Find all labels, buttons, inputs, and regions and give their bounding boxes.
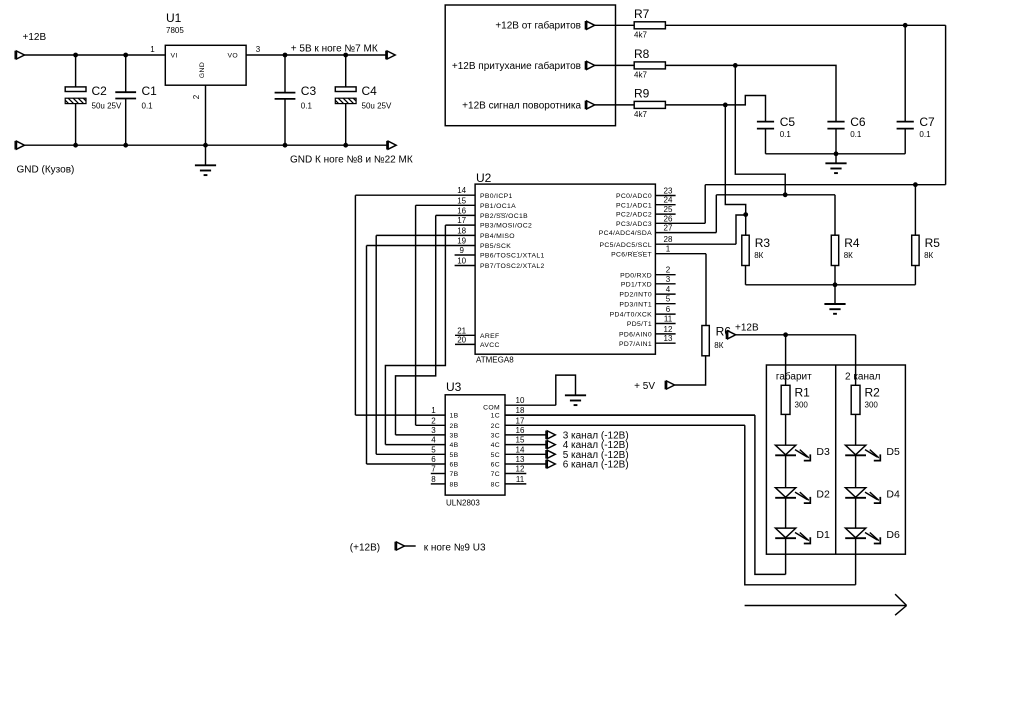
wire R3 bottom: [745, 266, 747, 285]
svg-text:14: 14: [457, 186, 466, 195]
wire C4 bottom lead: [345, 104, 347, 146]
wire +5V rail: [246, 54, 386, 56]
svg-text:8К: 8К: [924, 251, 933, 260]
wire PB0 to 1B: [354, 195, 356, 415]
wire C2 top lead: [75, 55, 77, 87]
pin 2 wire of U1: [192, 85, 206, 145]
junction: [343, 143, 348, 148]
svg-text:D5: D5: [886, 446, 900, 458]
svg-text:габарит: габарит: [776, 371, 812, 383]
svg-text:17: 17: [516, 416, 525, 425]
port +5V output arrow: [386, 51, 395, 60]
svg-text:ULN2803: ULN2803: [446, 499, 480, 508]
resistor R2: [851, 385, 860, 414]
port 6 kanal output: [546, 460, 555, 469]
wire top rail to U1 VI: [25, 54, 166, 56]
junction net2/R8: [783, 192, 788, 197]
svg-text:R8: R8: [634, 47, 650, 61]
pin 12 PD6/AIN0 of U2: [619, 325, 676, 339]
svg-text:U2: U2: [476, 171, 492, 185]
svg-text:12: 12: [664, 325, 673, 334]
wire PB3 to 4B: [385, 225, 445, 445]
pin 14 PB0/ICP1 of U2: [355, 186, 512, 200]
svg-text:GND (Кузов): GND (Кузов): [17, 165, 75, 176]
port GND output arrow: [387, 141, 396, 150]
pin 27 PC4/ADC4/SDA of U2: [599, 224, 717, 238]
svg-text:2: 2: [431, 416, 436, 425]
svg-text:PD0/RXD: PD0/RXD: [620, 272, 652, 279]
pin 12 7C of U3: [491, 465, 527, 479]
svg-text:D6: D6: [886, 529, 900, 541]
junction R7/C7: [903, 23, 908, 28]
svg-text:R5: R5: [925, 236, 941, 250]
svg-text:26: 26: [664, 214, 673, 223]
svg-text:2B: 2B: [450, 423, 459, 430]
wire C2 bottom lead: [75, 104, 77, 146]
pin 10 COM of U3: [505, 396, 556, 405]
pin 21 AREF of U2: [455, 326, 500, 340]
svg-text:GND К ноге №8 и №22 МК: GND К ноге №8 и №22 МК: [290, 155, 413, 166]
svg-text:0.1: 0.1: [919, 130, 931, 139]
svg-text:6B: 6B: [450, 462, 459, 469]
svg-text:PC5/ADC5/SCL: PC5/ADC5/SCL: [599, 242, 652, 249]
junction: [203, 143, 208, 148]
svg-text:4: 4: [431, 436, 436, 445]
pin 6 PD4/T0/XCK of U2: [610, 305, 676, 319]
wire COM to ground: [556, 375, 576, 405]
svg-text:2: 2: [666, 266, 671, 275]
svg-text:COM: COM: [483, 405, 500, 412]
port povorotnik input: [585, 101, 594, 110]
svg-text:9: 9: [459, 246, 464, 255]
svg-text:2C: 2C: [491, 423, 500, 430]
svg-text:0.1: 0.1: [780, 130, 792, 139]
wire C7 top lead: [904, 25, 906, 121]
svg-text:PD2/INT0: PD2/INT0: [619, 292, 652, 299]
wire to R7: [595, 24, 635, 26]
svg-text:GND: GND: [199, 62, 206, 78]
svg-text:300: 300: [795, 401, 809, 410]
port +5V: [665, 381, 674, 390]
pin 16 3C of U3: [491, 426, 546, 440]
svg-text:AVCC: AVCC: [480, 342, 500, 349]
svg-text:2 канал: 2 канал: [845, 372, 881, 383]
pin 23 PC0/ADC0 of U2: [616, 187, 676, 201]
svg-text:R9: R9: [634, 86, 650, 100]
junction R8 branch: [733, 63, 738, 68]
wire D3 to D2: [785, 455, 787, 487]
wire C5 bottom lead: [765, 129, 767, 154]
svg-text:7: 7: [431, 465, 436, 474]
junction: [73, 143, 78, 148]
svg-text:PD5/T1: PD5/T1: [627, 321, 652, 328]
ground under U1 pin 2: [205, 145, 207, 165]
wire R5 bottom: [914, 266, 916, 285]
pin 11 8C of U3: [491, 475, 527, 489]
wire D4 to D6: [855, 498, 857, 528]
junction R9 branch: [723, 103, 728, 108]
LED D5: [845, 445, 880, 460]
svg-text:5: 5: [431, 445, 436, 454]
wire net1 down: [945, 25, 947, 184]
svg-text:3: 3: [256, 45, 261, 54]
wire D1 down: [785, 538, 787, 574]
wire PB5 to 6B: [366, 246, 368, 465]
resistor R6: [702, 326, 709, 356]
pin 17 2C of U3: [491, 416, 745, 430]
svg-text:19: 19: [457, 237, 466, 246]
svg-text:6: 6: [431, 455, 436, 464]
port +12V LED supply: [726, 331, 735, 340]
wire 2C out: [505, 424, 745, 426]
svg-text:16: 16: [516, 426, 525, 435]
pin 18 1C of U3: [491, 406, 755, 420]
svg-text:50u 25V: 50u 25V: [92, 102, 122, 111]
svg-text:C4: C4: [362, 84, 378, 98]
svg-text:15: 15: [516, 436, 525, 445]
svg-text:6: 6: [666, 305, 671, 314]
svg-text:PD1/TXD: PD1/TXD: [621, 281, 652, 288]
svg-text:4k7: 4k7: [634, 110, 647, 119]
wire C3 top lead: [284, 55, 286, 93]
svg-text:3: 3: [666, 275, 671, 284]
wire net2 to PC4: [715, 195, 717, 233]
resistor R7: [634, 22, 665, 29]
ground symbol COM: [565, 395, 586, 405]
svg-text:PC0/ADC0: PC0/ADC0: [616, 193, 652, 200]
wire C6 bottom lead: [835, 129, 837, 154]
svg-text:PB6/TOSC1/XTAL1: PB6/TOSC1/XTAL1: [480, 253, 545, 260]
capacitor C6: [827, 122, 844, 129]
junction: [123, 53, 128, 58]
pin 19 PB5/SCK of U2: [367, 237, 512, 251]
svg-text:1: 1: [431, 406, 436, 415]
svg-text:3: 3: [431, 426, 436, 435]
svg-text:VO: VO: [227, 53, 238, 60]
svg-text:0.1: 0.1: [301, 102, 313, 111]
pin 11 PD5/T1 of U2: [627, 315, 676, 329]
wire R7 to net1: [665, 24, 945, 26]
pin 4 4B of U3: [385, 436, 458, 450]
wire net1 horizontal: [705, 184, 945, 186]
svg-text:PD6/AIN0: PD6/AIN0: [619, 332, 652, 339]
ground symbol power rail: [195, 165, 216, 175]
wire to R9: [595, 104, 635, 106]
svg-text:VI: VI: [171, 53, 178, 60]
wire note stub: [405, 545, 416, 547]
wire net1 to PC3: [704, 185, 706, 224]
svg-text:R7: R7: [634, 7, 650, 21]
direction arrow: [745, 594, 907, 615]
svg-text:+ 5V: + 5V: [634, 381, 655, 392]
capacitor C3: [275, 93, 296, 99]
junction: [283, 53, 288, 58]
LED D6: [845, 528, 880, 543]
LED D4: [845, 488, 880, 503]
resistor R8: [634, 62, 665, 69]
capacitor C4: [335, 87, 356, 104]
svg-text:R2: R2: [865, 386, 881, 400]
svg-text:PC4/ADC4/SDA: PC4/ADC4/SDA: [599, 230, 652, 237]
svg-text:11: 11: [664, 315, 673, 324]
junction: [343, 53, 348, 58]
svg-text:0.1: 0.1: [850, 130, 862, 139]
LED block divider: [835, 365, 837, 554]
wire C3 bottom lead: [284, 99, 286, 145]
svg-text:1: 1: [150, 45, 155, 54]
pin 14 5C of U3: [491, 445, 546, 459]
wire +12V to LED columns: [736, 334, 856, 336]
pin 5 PD3/INT1 of U2: [619, 295, 675, 309]
svg-text:7B: 7B: [450, 471, 459, 478]
svg-text:PB4/MISO: PB4/MISO: [480, 233, 515, 240]
pin 20 AVCC of U2: [455, 335, 500, 349]
svg-text:D2: D2: [816, 489, 830, 501]
wire D2 to D1: [785, 498, 787, 528]
svg-text:(+12В): (+12В): [350, 543, 380, 554]
svg-text:8К: 8К: [714, 341, 723, 350]
port pritukhanie input: [585, 61, 594, 70]
svg-text:D4: D4: [886, 489, 900, 501]
pin 15 PB1/OC1A of U2: [416, 196, 517, 210]
svg-text:C5: C5: [780, 115, 796, 129]
svg-text:20: 20: [457, 335, 466, 344]
svg-text:7805: 7805: [166, 26, 184, 35]
input connector box: [445, 5, 615, 126]
svg-text:5C: 5C: [491, 452, 500, 459]
svg-text:6 канал (-12В): 6 канал (-12В): [563, 460, 629, 471]
svg-text:R1: R1: [795, 386, 811, 400]
pin 13 6C of U3: [491, 455, 546, 469]
svg-text:U3: U3: [446, 380, 462, 394]
pin 1 1B of U3: [355, 406, 458, 420]
wire PC5 to R3 node: [736, 215, 746, 244]
svg-text:5: 5: [666, 295, 671, 304]
svg-text:4B: 4B: [450, 442, 459, 449]
wire R9 branch to R3: [725, 105, 745, 235]
svg-text:8К: 8К: [754, 251, 763, 260]
svg-text:C2: C2: [92, 84, 108, 98]
wire C7 bottom lead: [904, 129, 906, 154]
pin 2 2B of U3: [416, 416, 459, 430]
pin 8 8B of U3: [431, 475, 459, 489]
junction: [123, 143, 128, 148]
svg-text:+12В: +12В: [23, 32, 47, 43]
junction: [283, 143, 288, 148]
pin 25 PC2/ADC2 of U2: [616, 205, 676, 219]
svg-text:U1: U1: [166, 11, 182, 25]
wire to R8: [595, 64, 635, 66]
wire 1C to D1 column: [755, 415, 786, 574]
svg-text:6C: 6C: [491, 462, 500, 469]
port 4 kanal output: [546, 440, 555, 449]
svg-text:R4: R4: [844, 236, 860, 250]
pin 10 PB7/TOSC2/XTAL2 of U2: [455, 257, 545, 271]
resistor R3: [742, 235, 749, 265]
pin 5 5B of U3: [376, 445, 458, 459]
svg-text:C6: C6: [850, 115, 866, 129]
wire R4 bottom: [834, 266, 836, 285]
port GND input: [15, 141, 24, 150]
pin 4 PD2/INT0 of U2: [619, 285, 675, 299]
pin 13 PD7/AIN1 of U2: [619, 334, 676, 348]
wire GND rail: [25, 144, 387, 146]
svg-text:PC3/ADC3: PC3/ADC3: [616, 221, 652, 228]
svg-text:D3: D3: [816, 446, 830, 458]
svg-text:PC1/ADC1: PC1/ADC1: [616, 202, 652, 209]
wire PB1 to 2B: [415, 205, 417, 425]
svg-text:PB5/SCK: PB5/SCK: [480, 243, 511, 250]
svg-text:PD7/AIN1: PD7/AIN1: [619, 341, 652, 348]
svg-text:+12В притухание габаритов: +12В притухание габаритов: [452, 60, 581, 72]
svg-text:14: 14: [516, 445, 525, 454]
wire R3R4R5 common: [746, 284, 916, 286]
port +12V note: [395, 542, 404, 551]
svg-text:3C: 3C: [491, 433, 500, 440]
regulator U1 7805: [165, 45, 246, 85]
capacitor C2: [65, 87, 86, 104]
svg-text:25: 25: [664, 205, 673, 214]
svg-text:21: 21: [457, 326, 466, 335]
svg-text:PC6/RESET: PC6/RESET: [611, 251, 652, 258]
resistor R9: [634, 101, 665, 108]
junction: [73, 53, 78, 58]
pin 16 PB2/SS/OC1B of U2: [436, 206, 528, 220]
wire D6 down: [855, 538, 857, 585]
svg-text:PB1/OC1A: PB1/OC1A: [480, 203, 516, 210]
svg-text:PB0/ICP1: PB0/ICP1: [480, 193, 513, 200]
wire R2 to D5: [855, 414, 857, 445]
ground symbol caps: [825, 163, 846, 173]
svg-text:C3: C3: [301, 84, 317, 98]
wire R1 to D3: [785, 414, 787, 445]
junction caps ground: [834, 151, 839, 156]
svg-text:PD4/T0/XCK: PD4/T0/XCK: [610, 312, 653, 319]
wire net1 to R5: [914, 185, 916, 236]
pin 6 6B of U3: [367, 455, 459, 469]
svg-text:2: 2: [192, 94, 201, 99]
wire R8 branch to net2: [735, 65, 785, 194]
svg-text:3B: 3B: [450, 433, 459, 440]
svg-text:8: 8: [431, 475, 436, 484]
pin 18 PB4/MISO of U2: [376, 226, 515, 240]
pin 24 PC1/ADC1 of U2: [616, 196, 676, 210]
wire R9 to C5: [665, 96, 765, 122]
svg-text:PC2/ADC2: PC2/ADC2: [616, 212, 652, 219]
microcontroller U2 body: [475, 184, 655, 354]
resistor R1: [781, 385, 790, 414]
pin 26 PC3/ADC3 of U2: [616, 214, 705, 228]
svg-text:50u 25V: 50u 25V: [362, 102, 392, 111]
wire PB2 to 3B: [396, 215, 436, 435]
junction R3/PC5: [743, 212, 748, 217]
svg-text:27: 27: [664, 224, 673, 233]
svg-text:1B: 1B: [450, 413, 459, 420]
ground symbol R3R4R5: [824, 304, 845, 314]
svg-text:11: 11: [516, 475, 525, 484]
wire down to R1: [785, 335, 787, 386]
LED block box: [766, 365, 905, 554]
svg-text:ATMEGA8: ATMEGA8: [476, 356, 514, 365]
LED D3: [775, 445, 810, 460]
svg-text:1C: 1C: [491, 413, 500, 420]
svg-text:0.1: 0.1: [142, 102, 154, 111]
wire net2 to R4: [834, 195, 836, 235]
svg-text:R3: R3: [755, 236, 771, 250]
wire R6 to +5V: [675, 356, 706, 385]
svg-text:8B: 8B: [450, 482, 459, 489]
svg-text:13: 13: [516, 455, 525, 464]
port gabarity input: [585, 21, 594, 30]
svg-text:300: 300: [865, 401, 879, 410]
pin 2 PD0/RXD of U2: [620, 266, 676, 280]
wire C1 bottom lead: [125, 99, 127, 146]
svg-text:10: 10: [457, 257, 466, 266]
pin 17 PB3/MOSI/OC2 of U2: [445, 216, 532, 230]
wire 1C out: [505, 414, 755, 416]
svg-text:17: 17: [457, 216, 466, 225]
junction R4 ground: [833, 282, 838, 287]
svg-text:D1: D1: [816, 529, 830, 541]
wire R8 to C6: [665, 65, 836, 121]
LED D2: [775, 488, 810, 503]
LED D1: [775, 528, 810, 543]
svg-text:C1: C1: [142, 84, 158, 98]
svg-text:18: 18: [457, 226, 466, 235]
port +12V input: [15, 51, 24, 60]
svg-text:к ноге №9 U3: к ноге №9 U3: [424, 543, 486, 554]
wire D5 to D4: [855, 455, 857, 487]
svg-text:28: 28: [664, 235, 673, 244]
pin 1 PC6/RESET of U2: [611, 245, 706, 259]
wire down to R2: [855, 335, 857, 386]
wire R4 ground stem: [834, 285, 836, 304]
capacitor C5: [757, 122, 774, 129]
svg-text:7C: 7C: [491, 471, 500, 478]
svg-text:+12В: +12В: [735, 323, 759, 334]
svg-text:+12В от габаритов: +12В от габаритов: [495, 20, 581, 32]
svg-text:PB2/SS/OC1B: PB2/SS/OC1B: [480, 213, 528, 220]
svg-text:16: 16: [457, 206, 466, 215]
pin 3 PD1/TXD of U2: [621, 275, 676, 289]
driver U3 body: [445, 395, 505, 495]
pin 9 PB6/TOSC1/XTAL1 of U2: [455, 246, 545, 260]
wire net2 horizontal: [716, 194, 835, 196]
svg-text:1: 1: [666, 245, 671, 254]
svg-text:24: 24: [664, 196, 673, 205]
svg-text:5B: 5B: [450, 452, 459, 459]
svg-text:8К: 8К: [844, 251, 853, 260]
pin 28 PC5/ADC5/SCL of U2: [599, 235, 736, 249]
svg-text:18: 18: [516, 406, 525, 415]
svg-text:PB3/MOSI/OC2: PB3/MOSI/OC2: [480, 223, 532, 230]
wire C4 top lead: [345, 55, 347, 87]
svg-text:10: 10: [516, 396, 525, 405]
resistor R5: [912, 235, 919, 265]
svg-text:15: 15: [457, 196, 466, 205]
pin 3 3B of U3: [396, 426, 459, 440]
port 3 kanal output: [546, 431, 555, 440]
svg-text:4: 4: [666, 285, 671, 294]
wire C1 top lead: [125, 55, 127, 92]
svg-text:4C: 4C: [491, 442, 500, 449]
resistor R4: [831, 235, 838, 265]
wire RESET to R6: [705, 254, 707, 326]
svg-text:12: 12: [516, 465, 525, 474]
port 5 kanal output: [546, 450, 555, 459]
svg-text:AREF: AREF: [480, 333, 500, 340]
pin 7 7B of U3: [431, 465, 459, 479]
